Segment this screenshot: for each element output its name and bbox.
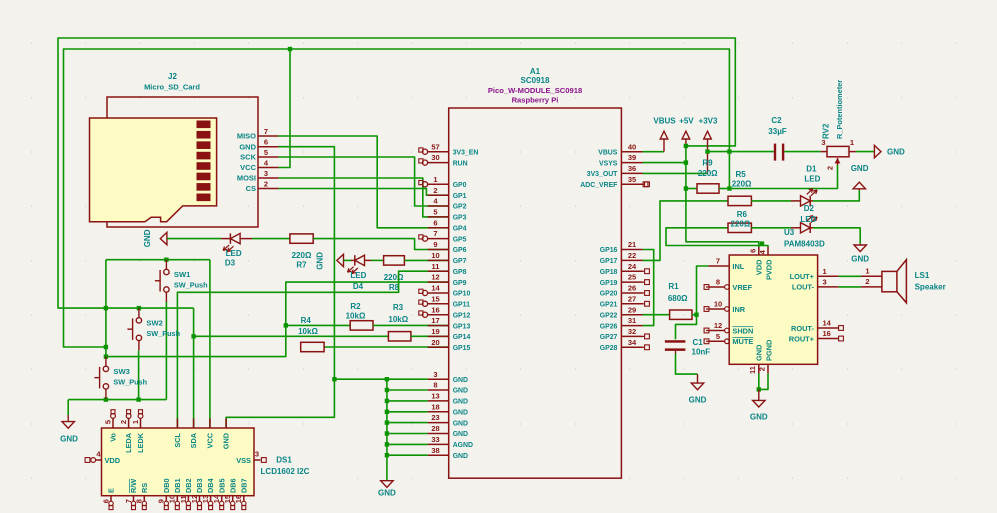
DS1 pin VCC [209,418,211,428]
wire LOUT- to speaker [839,286,861,288]
wire GND pin row [387,443,428,445]
junction inner column H2 [727,149,731,153]
junction R2 row [284,323,288,327]
wire VSYS pin to +5V column [643,162,686,164]
wire C1 to GND [675,351,677,354]
svg-text:6: 6 [433,218,437,227]
ground below C1 [697,374,699,383]
svg-text:30: 30 [431,153,439,162]
svg-text:D1: D1 [806,164,817,173]
wire R3 to GP14 [411,335,449,337]
svg-text:SC0918: SC0918 [521,76,550,85]
svg-text:11: 11 [748,366,757,374]
ground D3 row [160,232,167,244]
svg-text:10kΩ: 10kΩ [298,327,318,336]
svg-text:Vo: Vo [109,432,118,441]
wire 3V3_OUT pin to +3V3 [643,172,708,174]
A1 pin 15 GP11 [428,303,449,305]
svg-text:GP10: GP10 [453,291,471,298]
DS1 pin 4 VDD [96,459,102,461]
svg-text:3: 3 [255,450,259,459]
svg-text:R9: R9 [702,158,713,167]
svg-text:3: 3 [264,169,268,178]
svg-text:GND: GND [453,399,468,406]
svg-text:DB3: DB3 [195,478,204,493]
wire D2 to GND [813,228,860,244]
svg-text:GND: GND [453,420,468,427]
svg-text:GND: GND [378,489,396,498]
svg-text:5: 5 [264,148,268,157]
svg-text:ROUT+: ROUT+ [789,334,815,343]
svg-text:LS1: LS1 [915,271,930,280]
svg-text:17: 17 [431,316,439,325]
svg-text:MOSI: MOSI [237,174,256,183]
svg-text:D3: D3 [225,259,236,268]
svg-text:15: 15 [431,294,439,303]
svg-text:GND: GND [222,433,231,449]
wire switch bottom row [68,399,166,401]
svg-text:31: 31 [628,316,636,325]
svg-text:32: 32 [628,327,636,336]
wire SW2 bottom vertical [138,351,140,400]
wire GND pin row [387,389,428,391]
svg-text:6: 6 [264,138,268,147]
wire SDA column [193,308,195,428]
svg-text:VDD: VDD [105,456,121,465]
junction GND bus [385,399,389,403]
A1 pin 23 GND [428,422,449,424]
svg-text:23: 23 [431,413,439,422]
svg-text:LED: LED [350,271,366,280]
junction common row308 [104,306,108,310]
svg-text:GP16: GP16 [600,247,618,254]
svg-text:VREF: VREF [732,283,752,292]
junction U3 ground [757,387,761,391]
diode D3 LED [221,238,230,240]
amplifier U3 outline [729,255,817,364]
svg-text:33: 33 [431,435,439,444]
svg-text:PAM8403D: PAM8403D [784,239,825,248]
speaker LS1 [861,275,882,277]
wire MOSI to GP3 [279,178,449,217]
svg-text:9: 9 [433,240,437,249]
junction +5V R9 left [684,186,688,190]
svg-text:2: 2 [119,420,128,424]
junction GND bus [385,420,389,424]
svg-text:GND: GND [887,147,905,156]
svg-text:38: 38 [431,446,439,455]
wire +3V3 to H2 row [708,151,774,153]
wire R6 left jog [666,228,768,247]
resistor R3 [388,332,411,341]
wire SCL column to GP8 [177,271,448,428]
svg-text:GP28: GP28 [600,345,618,352]
svg-text:14: 14 [431,284,440,293]
svg-text:5: 5 [716,332,720,341]
svg-text:220Ω: 220Ω [384,273,404,282]
DS1 pin LEDA [128,418,130,428]
J2 pin 5 SCK [258,156,279,158]
svg-text:GP18: GP18 [600,269,618,276]
svg-text:AGND: AGND [453,442,473,449]
junction SW3 bottom [104,397,108,401]
U3 pin 12 SHDN [708,330,724,332]
wire SW1 bottom vertical [165,302,167,400]
svg-text:GND: GND [60,435,78,444]
capacitor C2 [774,144,776,161]
wire R1 junction to C1 [676,315,697,340]
wire SD VCC drop [279,49,291,168]
wire LOUT+ to speaker [839,275,861,277]
svg-text:2: 2 [264,179,268,188]
svg-text:19: 19 [431,327,439,336]
A1 pin 36 3V3_OUT [621,172,642,174]
svg-text:A1: A1 [530,67,541,76]
svg-text:D4: D4 [353,282,364,291]
svg-text:3V3_OUT: 3V3_OUT [587,171,618,178]
svg-text:INR: INR [732,305,745,314]
svg-text:34: 34 [628,338,637,347]
svg-text:GND: GND [689,396,707,405]
svg-text:DB2: DB2 [184,478,193,493]
svg-text:E: E [107,488,116,493]
DS1 pin LEDK [140,418,142,428]
resistor R4 [301,342,324,351]
svg-text:VSS: VSS [236,456,251,465]
A1 pin 18 GND [428,411,449,413]
J2 card body [90,118,217,222]
A1 pin 31 GP26 [621,325,642,327]
svg-text:Raspberry Pi: Raspberry Pi [512,96,559,105]
svg-text:220Ω: 220Ω [732,179,752,188]
U3 pin 7 INL [708,265,729,267]
svg-text:24: 24 [628,262,637,271]
A1 pin 4 GP2 [428,205,449,207]
svg-text:8: 8 [433,381,437,390]
ground below D2 [859,244,861,245]
svg-text:39: 39 [628,153,636,162]
wire +5V column down to U3 VDD [686,146,759,247]
svg-text:29: 29 [628,305,636,314]
power flag VBUS [663,139,665,152]
svg-text:LOUT+: LOUT+ [790,272,815,281]
svg-text:1: 1 [433,175,437,184]
wire row308 to SW2 and SDA column [106,307,194,309]
wire R8 to GP7 [404,259,448,261]
A1 pin 32 GP27 [621,335,642,337]
wire U3 GND pins [758,374,760,390]
resistor R8 [384,256,405,265]
ground bottom-left [67,400,69,415]
svg-text:R3: R3 [393,303,404,312]
A1 pin 39 VSYS [621,162,642,164]
svg-text:Micro_SD_Card: Micro_SD_Card [144,83,200,92]
A1 pin 28 GND [428,433,449,435]
svg-text:SW_Push: SW_Push [174,281,208,290]
power flag +5V [685,139,687,146]
svg-text:RUN: RUN [453,160,468,167]
svg-text:18: 18 [431,402,439,411]
J2 pin 6 GND [258,146,279,148]
svg-text:16: 16 [823,329,831,338]
svg-text:LOUT-: LOUT- [792,283,815,292]
wire SCK to GP2 [279,157,449,206]
U3 pin 16 ROUT+ [818,338,839,340]
A1 pin 5 GP3 [428,216,449,218]
DS1 pin 15 DB6 [232,496,234,502]
svg-text:5: 5 [103,420,112,424]
svg-text:R6: R6 [737,210,748,219]
svg-text:SW_Push: SW_Push [113,377,147,386]
DS1 pin 13 DB4 [210,496,212,502]
svg-text:12: 12 [431,273,439,282]
svg-text:36: 36 [628,164,636,173]
display DS1 outline [102,428,255,496]
resistor R5 [728,196,751,205]
svg-text:GND: GND [750,413,768,422]
resistor R1 [670,310,692,319]
svg-text:GP22: GP22 [600,312,618,319]
svg-text:12: 12 [714,321,722,330]
svg-text:RV2: RV2 [822,123,831,139]
svg-text:220Ω: 220Ω [731,219,751,228]
wire R7 to GP6 [313,239,449,250]
svg-text:SW1: SW1 [174,270,191,279]
svg-text:10: 10 [431,251,439,260]
junction common row347 [104,345,108,349]
svg-text:GND: GND [316,252,325,270]
svg-text:C2: C2 [771,116,782,125]
wire RV2 to GND [856,151,875,153]
A1 pin 13 GND [428,400,449,402]
wire R6 to D2 [751,227,791,229]
svg-text:GND: GND [755,344,764,361]
DS1 pin 11 DB2 [187,496,189,502]
svg-text:SCK: SCK [240,153,256,162]
DS1 pin GND [225,418,227,428]
svg-text:D2: D2 [804,204,815,213]
svg-text:GND: GND [453,431,468,438]
svg-text:10nF: 10nF [692,348,711,357]
wire GP22 to R1 [643,314,670,316]
U3 pin 1 LOUT+ [818,275,839,277]
DS1 pin 12 DB3 [199,496,201,502]
diode D2 LED [791,227,801,229]
diode D4 LED [351,259,355,261]
U3 pin 10 INR [708,308,724,310]
svg-text:LCD1602 I2C: LCD1602 I2C [261,467,310,476]
svg-text:10kΩ: 10kΩ [388,315,408,324]
svg-text:57: 57 [431,142,439,151]
wire 3V3 inner loop [64,49,730,347]
pin 35 ADC_VREF dangling [643,182,648,187]
ground right of RV2 [874,145,881,157]
DS1 pin Vo [112,418,114,428]
svg-text:GP14: GP14 [453,334,471,341]
resistor R7 [290,234,313,243]
ground D4 row [337,254,344,266]
svg-text:7: 7 [264,127,268,136]
svg-text:GP11: GP11 [453,302,470,309]
resistor R9 [686,188,697,190]
svg-text:7: 7 [716,257,720,266]
J2 pin 2 CS [258,188,279,190]
svg-text:22: 22 [628,251,636,260]
J2 card contact pads [197,121,211,129]
svg-text:3: 3 [433,370,437,379]
junction GND bus [385,453,389,457]
svg-text:ADC_VREF: ADC_VREF [580,182,617,189]
svg-text:DB1: DB1 [173,478,182,493]
U3 pin 3 LOUT- [818,286,839,288]
A1 pin 8 GND [428,389,449,391]
wire SD GND down [226,147,334,428]
svg-text:GND: GND [453,377,468,384]
svg-text:Pico_W-MODULE_SC0918: Pico_W-MODULE_SC0918 [488,86,582,95]
junction +3V3 H2 [705,149,709,153]
connector J2 outline [107,97,258,227]
svg-text:28: 28 [431,424,439,433]
A1 pin 1 GP0 [428,183,449,185]
svg-text:GP8: GP8 [453,269,467,276]
svg-text:14: 14 [823,319,832,328]
DS1 pin SDA [193,418,195,428]
wire CS to GP1 [279,189,449,196]
svg-text:33µF: 33µF [768,127,787,136]
svg-text:CS: CS [246,184,256,193]
svg-text:GND: GND [453,410,468,417]
A1 pin 35 ADC_VREF [621,183,642,185]
svg-text:R_Potentiometer: R_Potentiometer [835,80,844,139]
svg-text:3V3_EN: 3V3_EN [453,149,479,156]
svg-text:R7: R7 [296,260,307,269]
A1 pin 14 GP10 [428,292,449,294]
svg-text:2: 2 [826,166,835,170]
A1 pin 7 GP5 [428,238,449,240]
A1 pin 17 GP13 [428,325,449,327]
A1 pin 3 GND [428,378,449,380]
svg-text:DB6: DB6 [228,478,237,493]
svg-text:Speaker: Speaker [915,282,946,291]
wire RV2 wiper row [729,165,837,189]
svg-text:GP2: GP2 [453,204,467,211]
junction GND bus [385,431,389,435]
svg-text:6: 6 [748,249,757,253]
A1 pin 25 GP19 [621,281,642,283]
wire R4 to GP15 [324,346,449,348]
svg-text:VBUS: VBUS [598,149,618,156]
svg-text:GP21: GP21 [600,302,618,309]
wire VSYS outer loop [58,38,735,308]
U3 pin 8 VREF [708,286,724,288]
A1 pin 21 GP16 [621,249,642,251]
A1 pin 6 GP4 [428,227,449,229]
svg-text:GP4: GP4 [453,226,467,233]
wire GND pin row [387,422,428,424]
A1 pin 2 GP1 [428,194,449,196]
wire GND pin row [387,454,428,456]
junction U3 VDD [760,241,764,245]
junction SW2 bottom [136,397,140,401]
svg-text:PVDD: PVDD [765,259,774,280]
DS1 pin 9 DB0 [165,496,167,502]
svg-text:+3V3: +3V3 [699,117,718,126]
U3 pin 14 ROUT- [818,327,839,329]
module A1 outline [449,108,622,478]
svg-text:7: 7 [433,229,437,238]
svg-text:LED: LED [804,174,820,183]
svg-text:2: 2 [433,186,437,195]
A1 pin 11 GP8 [428,270,449,272]
junction SW1 top [164,258,168,262]
svg-text:MUTE: MUTE [732,337,753,346]
svg-text:2: 2 [865,277,869,286]
junction +5V VSYS [684,160,688,164]
DS1 pin 7 R/W [133,496,135,502]
A1 pin 30 RUN [428,162,449,164]
wire switch top row [106,259,210,261]
junction SW2 top [137,306,141,310]
svg-text:VSYS: VSYS [599,160,618,167]
svg-text:GP7: GP7 [453,258,467,265]
DS1 pin 8 RS [143,496,145,502]
svg-text:1: 1 [131,420,140,424]
svg-text:25: 25 [628,273,636,282]
svg-text:LEDK: LEDK [136,432,145,453]
junction bus top [385,377,389,381]
ground below U3 [758,389,760,400]
DS1 pin 16 DB7 [243,496,245,502]
svg-text:13: 13 [431,392,439,401]
wire R2 to GP13 [373,324,449,326]
wire common vertical [105,260,107,357]
svg-text:GP13: GP13 [453,323,471,330]
A1 pin 22 GP17 [621,259,642,261]
wire row356 to GP9 column [106,282,449,357]
svg-text:11: 11 [432,262,440,271]
resistor R6 [728,223,751,232]
svg-text:SW3: SW3 [113,367,129,376]
junction common row356 [104,354,108,358]
A1 pin 16 GP12 [428,314,449,316]
A1 pin 27 GP21 [621,303,642,305]
junction wiper row [727,186,731,190]
svg-text:SCL: SCL [173,432,182,447]
svg-text:27: 27 [628,294,636,303]
svg-text:40: 40 [628,142,636,151]
junction R1 right [694,313,698,317]
wire GND pin row [387,433,428,435]
DS1 pin 14 DB5 [221,496,223,502]
svg-text:GP17: GP17 [600,258,618,265]
wire D3 to R7 [252,238,290,240]
J2 pin 3 MOSI [258,177,279,179]
junction GND bus [385,410,389,414]
svg-text:U3: U3 [784,228,795,237]
svg-text:GND: GND [453,453,468,460]
svg-text:+5V: +5V [679,117,694,126]
junction GND bus [385,442,389,446]
U3 pin 4 PVDD [767,247,769,255]
U3 pin 5 MUTE [708,340,724,342]
svg-text:SHDN: SHDN [732,326,753,335]
svg-text:GP19: GP19 [600,280,618,287]
power flag +3V3 [707,139,709,173]
potentiometer RV2 [821,151,827,153]
svg-text:SDA: SDA [189,432,198,448]
A1 pin 34 GP28 [621,346,642,348]
wire pin3 GND row [334,378,427,380]
